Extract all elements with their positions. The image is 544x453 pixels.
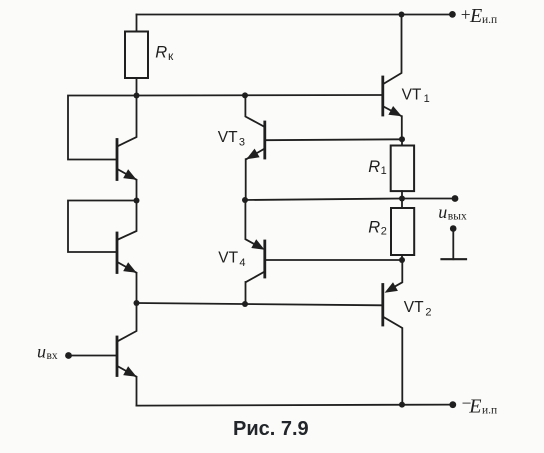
resistor Rк — [125, 32, 148, 79]
wire: feedback loop of lower diode-connected transistor — [68, 201, 137, 253]
node: junction VT1 emitter / VT3 base / R1 top — [399, 136, 405, 142]
wire: output stub to uвых terminal — [402, 198, 455, 200]
svg-text:вых: вых — [448, 210, 467, 222]
svg-text:1: 1 — [424, 93, 430, 105]
ground symbol (output reference) — [442, 225, 467, 259]
transistor VT4 — [245, 200, 264, 303]
transistor Q(upper-left diode-connected) — [117, 96, 137, 201]
label uвых — [438, 202, 467, 222]
wire: -E supply rail (bottom) — [137, 405, 453, 406]
svg-text:4: 4 — [239, 257, 245, 269]
label VT2 — [404, 299, 432, 319]
svg-text:VT: VT — [402, 87, 422, 104]
svg-text:2: 2 — [381, 225, 387, 237]
wire: R1 bottom lead — [401, 191, 403, 198]
svg-text:u: u — [438, 202, 447, 222]
wire: input lead — [69, 355, 117, 357]
svg-text:E: E — [469, 5, 482, 27]
svg-text:R: R — [155, 43, 167, 61]
wire: R2 bottom lead — [401, 255, 403, 260]
wire: feedback loop of upper diode-connected transistor — [68, 96, 137, 160]
node: junction VT2 collector / -E rail — [399, 402, 405, 408]
node: junction VT1 collector / +E rail — [399, 12, 405, 18]
node: junction upper/lower mirror stage — [134, 198, 140, 204]
label uвх — [37, 342, 58, 362]
resistor R1 — [391, 146, 414, 192]
label caption Рис. 7.9 — [233, 418, 309, 440]
label VT1 — [402, 87, 430, 105]
node: junction mid bus / VT4 branch — [242, 301, 248, 307]
svg-text:u: u — [37, 342, 46, 362]
wire: R1 top lead — [401, 139, 403, 145]
wire: VT3 base to R1 bottom-node sense line — [265, 138, 402, 141]
wire: output bus (VT3/VT4 junction to R1-R2 midpoint) — [245, 199, 402, 201]
svg-text:VT: VT — [218, 129, 238, 146]
node: junction bias bus / VT3 emitter branch — [242, 92, 248, 98]
svg-text:к: к — [168, 49, 174, 63]
wire: mid bus (driver collector line to VT2 base) — [137, 303, 383, 305]
label Rк — [155, 43, 174, 63]
svg-text:VT: VT — [404, 299, 424, 316]
svg-text:вх: вх — [47, 350, 58, 362]
label R1 — [368, 158, 387, 177]
node: junction Rk / mirror collector — [134, 93, 140, 99]
label -Eип — [462, 393, 498, 418]
node: junction output bus / VT3-VT4 — [242, 197, 248, 203]
wire: base bias bus (Rk node to VT1 base) — [137, 94, 383, 97]
node: junction R1/R2 output midpoint — [399, 196, 405, 202]
wire: Rk top lead — [136, 15, 138, 32]
transistor VT3 — [245, 96, 264, 201]
wire: +E supply rail (top) — [137, 14, 453, 16]
node: junction R2 bottom / VT4 base / VT2 emitter — [399, 257, 405, 263]
transistor VT2 — [383, 260, 403, 405]
svg-text:3: 3 — [239, 136, 245, 148]
transistor Q(input stage) — [117, 303, 137, 406]
svg-text:1: 1 — [381, 165, 387, 177]
svg-text:Рис. 7.9: Рис. 7.9 — [233, 418, 309, 440]
node: left junction of mid bus — [134, 300, 140, 306]
node: output terminal uвых — [452, 195, 459, 202]
svg-text:E: E — [468, 396, 481, 418]
svg-text:R: R — [368, 218, 380, 236]
wire: Rk bottom lead — [136, 78, 138, 96]
svg-text:и.п: и.п — [482, 405, 497, 417]
label R2 — [368, 218, 387, 237]
wire: R2 top lead — [401, 199, 403, 209]
svg-text:и.п: и.п — [482, 14, 497, 26]
svg-text:2: 2 — [425, 307, 431, 319]
node: input terminal uвх — [65, 352, 72, 359]
wire: VT4 base to R2 bottom-node sense line — [265, 259, 402, 261]
transistor VT1 — [383, 15, 402, 140]
svg-text:R: R — [368, 158, 380, 176]
label VT3 — [218, 129, 245, 149]
label VT4 — [218, 250, 245, 270]
label +Eип — [461, 5, 497, 28]
node: +E terminal — [449, 11, 456, 18]
transistor Q(lower-left diode-connected) — [117, 201, 137, 304]
node: -E terminal — [449, 401, 456, 408]
resistor R2 — [391, 208, 414, 255]
svg-text:VT: VT — [218, 250, 238, 267]
